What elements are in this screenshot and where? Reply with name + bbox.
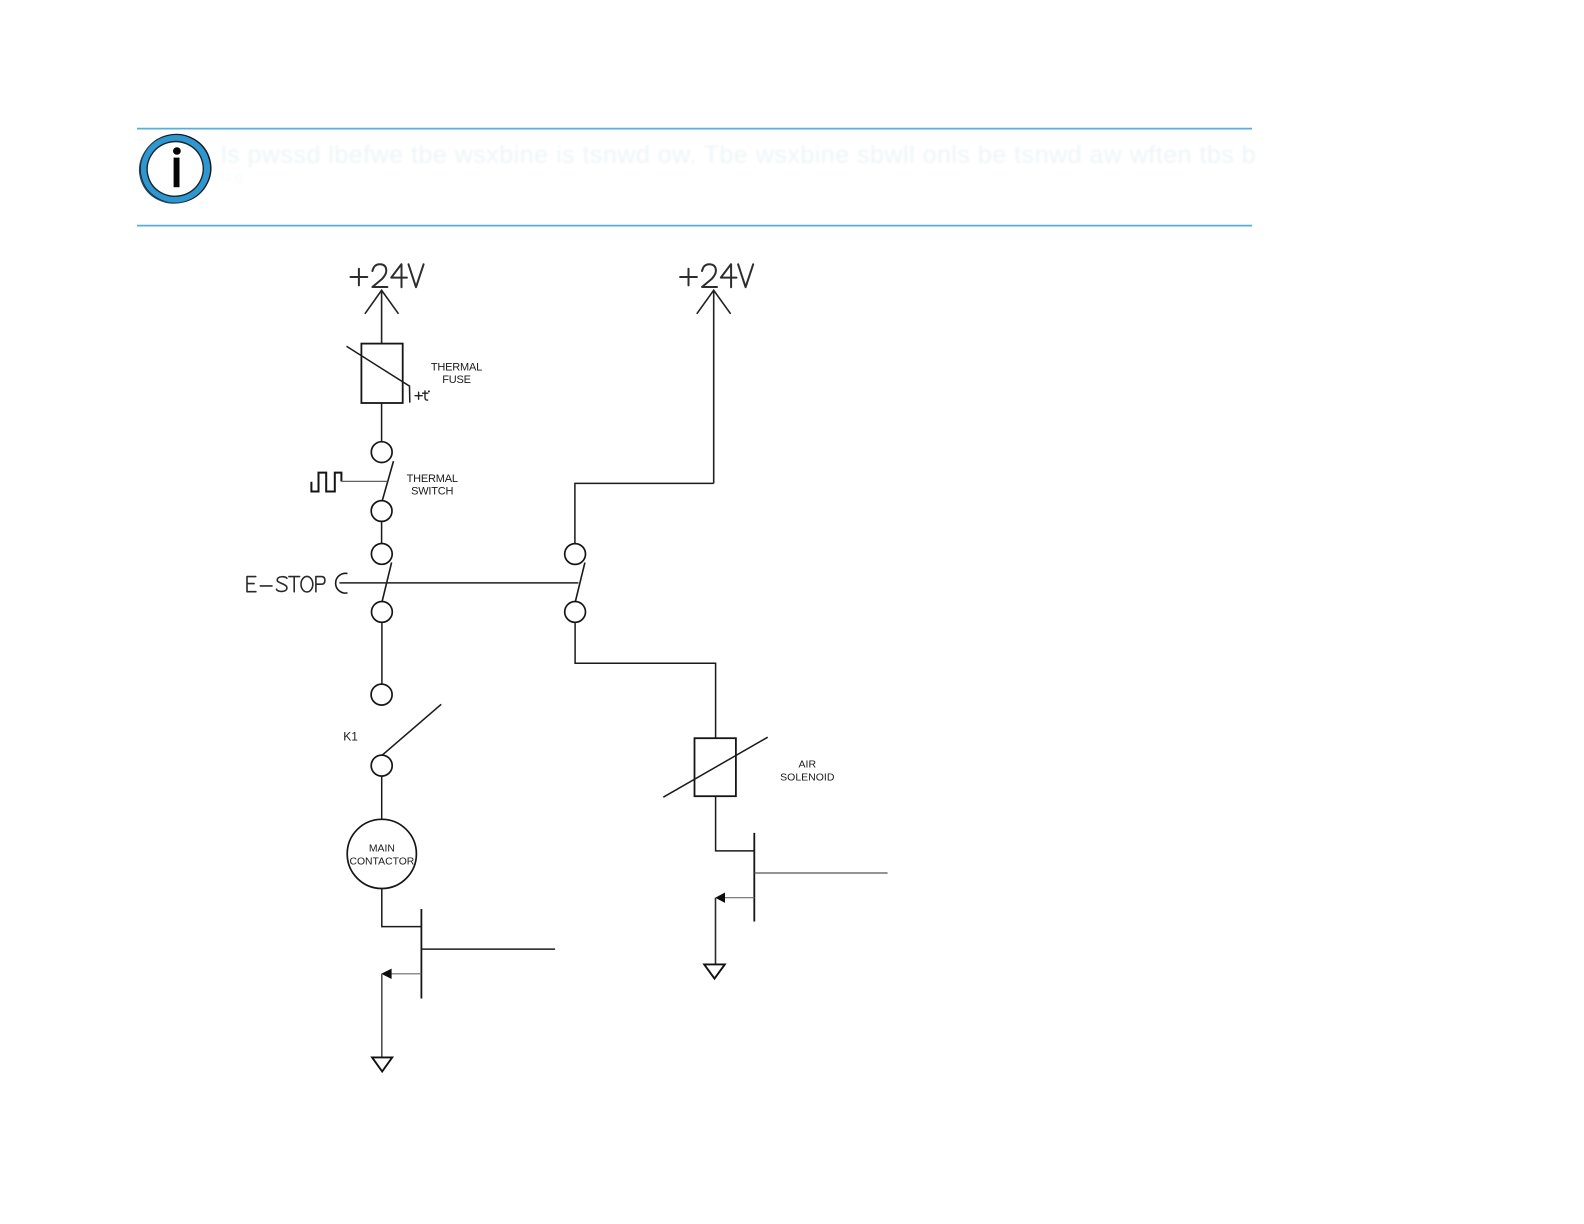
transistor Q2 source lead <box>754 872 887 874</box>
e-stop SB1 pole2 blade <box>575 563 585 602</box>
wire K1 to main contactor <box>381 776 383 819</box>
transistor Q2 arrowhead <box>715 893 725 903</box>
thermal switch S1 upper contact <box>371 442 392 463</box>
svg-text:ls pwssd lbefwe tbe wsxbine is: ls pwssd lbefwe tbe wsxbine is tsnwd ow.… <box>221 141 1256 169</box>
wire contactor to transistor Q1 drain <box>382 889 422 927</box>
transistor Q2 channel bar <box>753 833 755 922</box>
main contactor coil K1 circle <box>347 819 416 888</box>
e-stop SB1 pole2 lower contact <box>565 602 586 623</box>
svg-text:THERMAL: THERMAL <box>407 473 458 485</box>
bottom blue rule <box>137 225 1252 227</box>
thermal switch S1 blade <box>382 461 393 500</box>
thermal actuator square-wave symbol <box>311 473 341 492</box>
e-stop SB1 pole1 lower contact <box>372 602 393 623</box>
net +24V (left) label <box>351 264 424 287</box>
wire e-stop pole2 to air solenoid <box>575 622 716 738</box>
wire Q2 to ground <box>715 898 717 965</box>
label E-STOP <box>247 576 325 592</box>
relay contact K1 blade <box>383 704 442 755</box>
svg-text:K1: K1 <box>343 729 358 743</box>
wire +24V jog to e-stop pole2 <box>575 483 714 543</box>
label THERMAL FUSE <box>431 361 482 386</box>
svg-text:SWITCH: SWITCH <box>411 485 453 497</box>
transistor Q1 arrowhead <box>381 969 391 979</box>
svg-text:CONTACTOR: CONTACTOR <box>349 856 414 867</box>
e-stop actuator arc <box>336 573 348 593</box>
e-stop SB1 pole2 upper contact <box>565 544 586 565</box>
ground (left) <box>372 1057 392 1071</box>
air solenoid L1 diagonal strike <box>663 737 767 797</box>
svg-text:MAIN: MAIN <box>369 844 395 855</box>
net +24V (right) label <box>680 264 753 287</box>
svg-text:AIR: AIR <box>799 758 817 770</box>
wire solenoid to transistor Q2 drain <box>716 796 755 851</box>
power symbol +24V right arrow <box>697 290 731 483</box>
power symbol +24V left arrow <box>365 290 399 343</box>
wire Q1 to ground <box>381 974 383 1057</box>
thermal actuator link wire <box>341 480 387 482</box>
thermal fuse +t deg label <box>415 390 430 400</box>
svg-text:ls g: ls g <box>221 168 243 184</box>
svg-text:FUSE: FUSE <box>442 374 471 386</box>
e-stop mechanical link wire <box>339 582 578 584</box>
top blue rule <box>137 128 1252 130</box>
label AIR SOLENOID <box>780 758 835 783</box>
thermal switch S1 lower contact <box>371 501 392 522</box>
wire e-stop to K1 <box>381 622 383 684</box>
ground (right) <box>704 964 725 978</box>
thermal fuse F1 diagonal strike <box>347 346 410 402</box>
wire thermal switch to e-stop <box>381 521 383 543</box>
label THERMAL SWITCH <box>407 473 458 497</box>
faint note text <box>221 141 1256 184</box>
transistor Q1 source lead <box>421 948 555 950</box>
transistor Q2 gate lead <box>718 897 755 899</box>
e-stop SB1 pole1 blade <box>382 562 392 601</box>
svg-text:THERMAL: THERMAL <box>431 361 482 373</box>
wire fuse to thermal switch <box>381 403 383 441</box>
e-stop SB1 pole1 upper contact <box>371 544 392 565</box>
relay contact K1 lower terminal <box>371 755 392 776</box>
transistor Q1 channel bar <box>420 909 422 999</box>
thermal fuse F1 body <box>361 344 402 403</box>
label MAIN CONTACTOR <box>349 844 414 868</box>
transistor Q1 gate lead <box>384 973 422 975</box>
relay contact K1 upper terminal <box>371 684 392 705</box>
svg-text:SOLENOID: SOLENOID <box>780 771 835 783</box>
air solenoid L1 body <box>695 738 736 796</box>
info icon <box>131 127 218 212</box>
